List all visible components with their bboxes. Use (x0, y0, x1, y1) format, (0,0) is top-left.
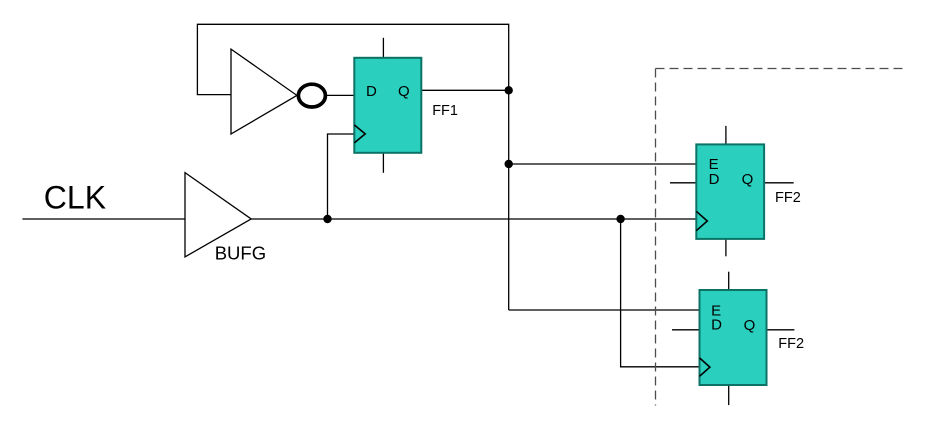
FF1 body (354, 58, 421, 153)
svg-text:Q: Q (398, 83, 410, 100)
FF2 top pin up (725, 126, 727, 144)
FF2 bottom D stub (672, 329, 700, 331)
FF2 bottom pin down (728, 385, 730, 405)
junction dot FF1 Q / feedback (505, 86, 513, 94)
wire to FF2 bottom E input (509, 309, 700, 311)
FF2 top body (696, 144, 764, 239)
svg-text:FF2: FF2 (775, 190, 801, 206)
inverter bubble (298, 84, 325, 107)
svg-text:BUFG: BUFG (215, 243, 266, 264)
junction dot at clock line / FF2 bottom clock branch (616, 215, 624, 223)
FF2 top clock wedge (696, 211, 707, 230)
svg-text:Q: Q (742, 171, 754, 188)
FF1 top pin (382, 38, 384, 58)
svg-text:FF2: FF2 (778, 336, 804, 352)
wire feedback net: FF1 Q up, across top, down to inverter input (197, 24, 508, 310)
svg-text:D: D (711, 317, 722, 334)
junction dot on feedback line at E branch (505, 160, 513, 168)
FF2 top Q wire (764, 182, 794, 184)
dashed boundary vertical (655, 69, 657, 406)
wire to FF2 top E input (509, 163, 697, 165)
wire branch to FF2 bottom clock (621, 219, 700, 367)
flip-flop FF1 (354, 38, 458, 173)
inverter INV (231, 49, 297, 134)
wire CLK input to BUFG (22, 218, 185, 220)
svg-text:CLK: CLK (44, 179, 106, 215)
flip-flop FF2 top (670, 126, 801, 256)
FF2 top D stub (670, 182, 696, 184)
FF2 bottom Q wire (767, 329, 795, 331)
FF1 bottom pin (382, 153, 384, 173)
svg-text:Q: Q (744, 317, 756, 334)
dashed boundary horizontal (656, 68, 906, 70)
FF2 bottom clock wedge (700, 358, 710, 376)
FF2 top pin down (725, 239, 727, 256)
wire branch to FF1 clock (328, 134, 355, 219)
FF2 bottom pin up (728, 272, 730, 290)
wire inverter output to FF1 D (326, 94, 355, 96)
svg-text:D: D (366, 83, 377, 100)
FF2 bottom body (700, 290, 767, 385)
FF1 clock wedge (354, 125, 365, 143)
svg-text:FF1: FF1 (432, 103, 458, 119)
junction dot at BUFG output / FF1 clock branch (323, 215, 331, 223)
wire BUFG output clock net (251, 218, 696, 220)
wire FF1 Q output (421, 89, 508, 91)
buffer BUFG (185, 173, 251, 257)
svg-text:D: D (709, 171, 720, 188)
flip-flop FF2 bottom (672, 272, 804, 405)
